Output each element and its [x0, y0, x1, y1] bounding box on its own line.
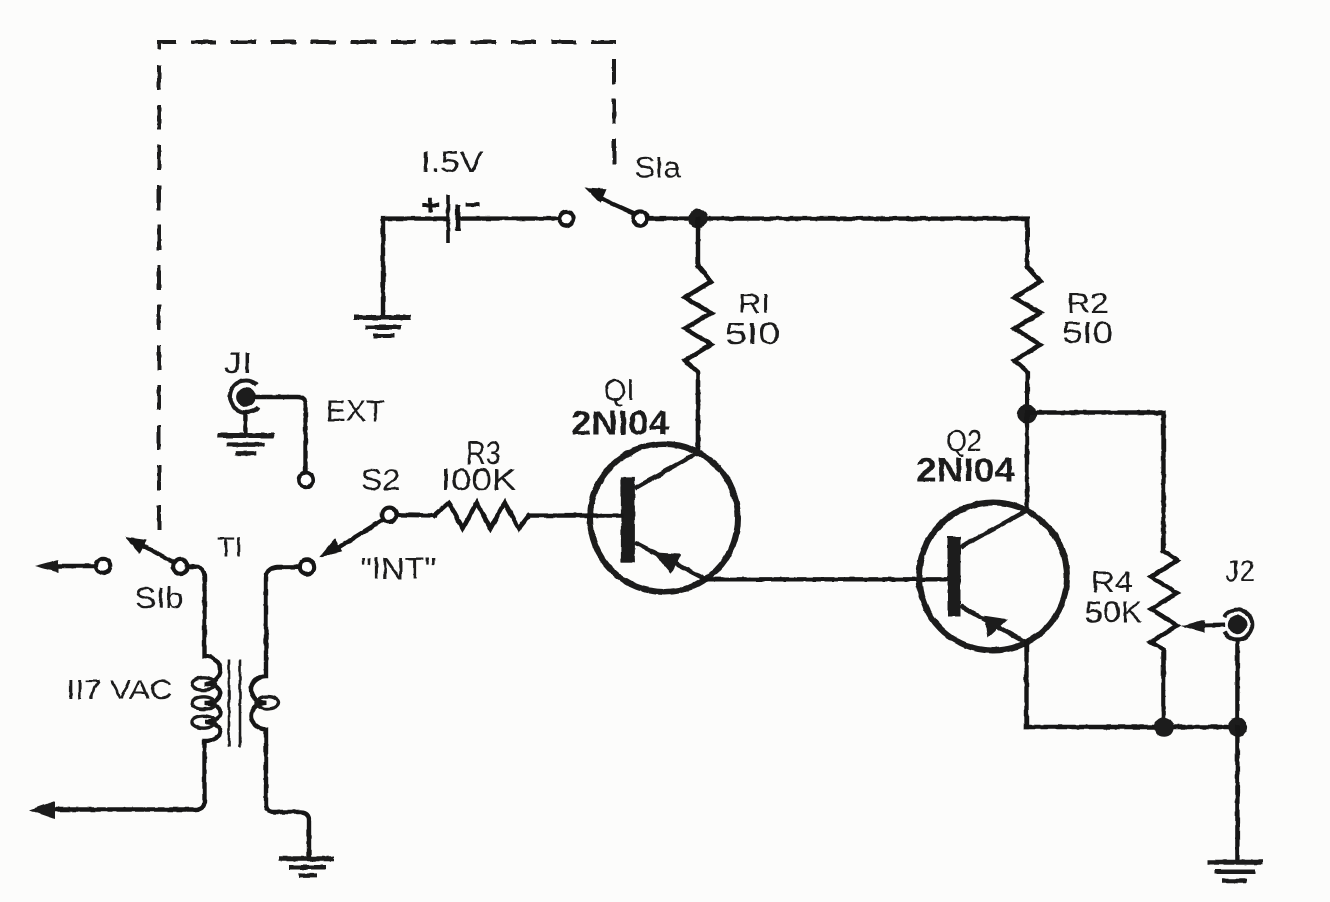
S1b left terminal circle: [96, 559, 110, 573]
wire R3 to Q1 base: [529, 513, 621, 517]
node junction dot J2 bottom: [1228, 717, 1247, 736]
wire S1a to top rail: [648, 219, 1028, 267]
EXT terminal circle: [299, 473, 313, 487]
wire Q2 emitter down: [1024, 642, 1028, 728]
wire junction to Q2 collector: [1025, 414, 1029, 511]
svg-text:II7 VAC: II7 VAC: [67, 674, 173, 705]
switch S1a left terminal: [559, 211, 573, 225]
transformer T1 primary winding: [48, 567, 221, 810]
wire battery to switch S1a: [461, 216, 558, 220]
svg-text:"INT": "INT": [360, 551, 436, 586]
transistor Q1 label: [571, 373, 669, 443]
transistor Q2 label: [916, 425, 1015, 490]
node junction dot top rail: [688, 209, 707, 228]
svg-text:QI: QI: [604, 373, 635, 408]
arrow AC line bottom: [29, 801, 55, 819]
ground bottom right: [1207, 862, 1263, 881]
svg-text:5I0: 5I0: [725, 316, 780, 351]
wire S2 to R3: [396, 513, 435, 518]
bottom rail wire: [1027, 725, 1238, 729]
resistor R3: [434, 503, 529, 529]
switch gang dashed linkage: [159, 42, 614, 530]
svg-text:R2: R2: [1067, 288, 1109, 319]
wire to bottom right ground: [1235, 727, 1239, 861]
svg-text:RI: RI: [738, 288, 770, 319]
wire J1 to EXT terminal: [256, 397, 306, 473]
svg-text:2NI04: 2NI04: [571, 405, 669, 443]
transformer T1 core: [229, 660, 240, 748]
battery minus sign: [466, 203, 480, 207]
jack J1: [230, 380, 258, 412]
switch S2: [319, 508, 397, 558]
svg-text:S2: S2: [361, 462, 401, 497]
INT terminal circle: [300, 560, 314, 574]
transistor Q1: [590, 444, 738, 592]
ground below J1: [217, 436, 274, 454]
svg-text:J2: J2: [1225, 555, 1255, 588]
svg-text:SIa: SIa: [635, 152, 681, 185]
ground below battery: [354, 318, 411, 336]
wire J1 to ground: [243, 413, 247, 435]
svg-text:50K: 50K: [1085, 595, 1143, 630]
svg-text:I.5V: I.5V: [421, 146, 483, 179]
resistor R2: [1014, 267, 1040, 405]
wire R2 junction to R4: [1027, 413, 1164, 552]
svg-text:SIb: SIb: [135, 582, 184, 615]
wire and arrow to AC line top: [35, 560, 96, 573]
wire battery to ground: [383, 219, 448, 315]
resistor R1 label: [725, 288, 780, 351]
node junction dot R4 bottom: [1154, 717, 1173, 736]
node junction dot R2 bottom: [1017, 404, 1036, 423]
wire Q1 emitter to Q2 base: [703, 577, 948, 581]
svg-text:I00K: I00K: [441, 462, 517, 497]
battery plus sign: [422, 198, 439, 213]
resistor R1: [685, 266, 711, 454]
resistor R2 label: [1062, 288, 1113, 351]
ground below transformer: [279, 859, 334, 876]
jack J2: [1224, 610, 1252, 640]
resistor R4: [1151, 551, 1177, 727]
switch S1a: [585, 188, 648, 226]
transformer T1 secondary winding: [251, 567, 309, 858]
svg-text:EXT: EXT: [326, 395, 385, 428]
wire junction to R1: [696, 219, 700, 266]
potentiometer wiper arrow J2 to R4: [1181, 620, 1223, 633]
resistor R3 label: [441, 435, 517, 497]
transistor Q2: [919, 503, 1067, 651]
svg-text:5I0: 5I0: [1062, 315, 1113, 350]
svg-text:JI: JI: [224, 347, 253, 380]
resistor R4 label: [1085, 566, 1143, 630]
battery B1: [448, 195, 458, 243]
wire J2 to bottom rail: [1235, 640, 1239, 727]
switch S1b: [125, 537, 188, 574]
svg-text:2NI04: 2NI04: [916, 452, 1015, 490]
svg-text:TI: TI: [217, 532, 243, 563]
